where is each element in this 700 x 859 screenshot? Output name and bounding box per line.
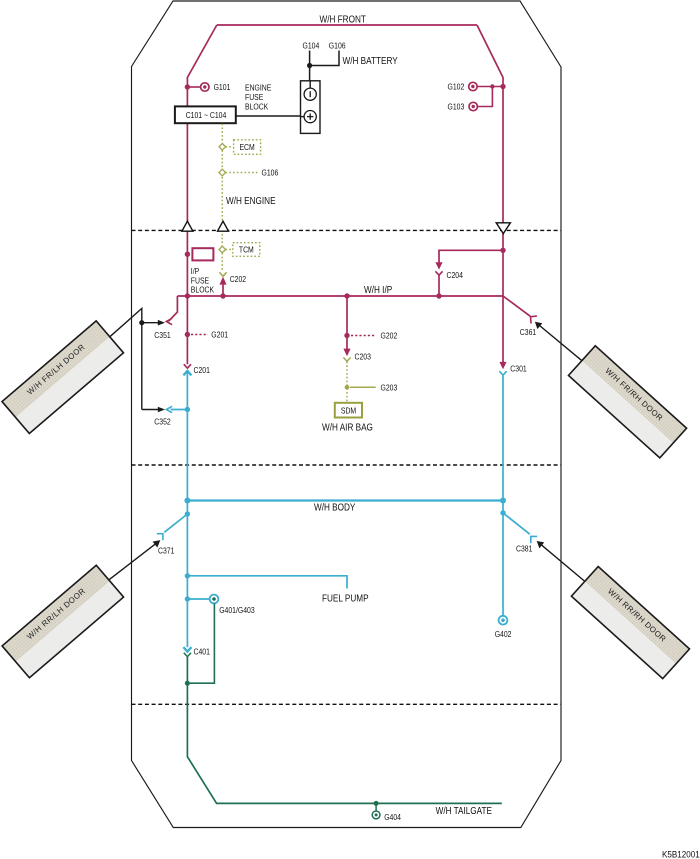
ground G101 <box>185 84 190 89</box>
svg-text:G106: G106 <box>329 41 346 51</box>
svg-text:SDM: SDM <box>341 406 356 416</box>
left cyan trunk <box>186 372 188 648</box>
svg-text:W/H TAILGATE: W/H TAILGATE <box>436 805 492 816</box>
W/H BODY main line <box>187 499 503 501</box>
svg-text:G201: G201 <box>211 330 228 340</box>
svg-text:C352: C352 <box>154 417 170 427</box>
svg-text:G404: G404 <box>384 812 401 822</box>
bulkhead triangle engine harness <box>218 221 229 231</box>
svg-text:BLOCK: BLOCK <box>245 102 269 112</box>
svg-text:C203: C203 <box>355 352 371 362</box>
connector C371 cyan pigtail <box>185 511 190 516</box>
W/H AIR BAG olive dotted drop <box>346 362 348 403</box>
svg-text:W/H ENGINE: W/H ENGINE <box>226 195 276 206</box>
W/H FR/RH DOOR harness bar <box>568 346 686 458</box>
leader arrow from RR/RH door bar to C381 <box>541 544 585 581</box>
arrow to C352 <box>142 409 159 411</box>
battery feed wire G106/W-H BATTERY <box>310 51 339 66</box>
dashed separator 2 <box>132 464 562 466</box>
TCM box <box>233 243 260 257</box>
connector block C101 ~ C104 <box>175 106 236 123</box>
W/H RR/LH DOOR harness bar <box>2 565 123 678</box>
svg-text:ENGINE: ENGINE <box>245 83 271 93</box>
svg-text:ECM: ECM <box>239 142 254 152</box>
dotted tap to G106 ground <box>226 172 258 174</box>
svg-text:G106: G106 <box>262 168 279 178</box>
svg-text:W/H I/P: W/H I/P <box>364 284 392 295</box>
diamond connector ECM tap <box>219 144 226 151</box>
svg-text:FUSE: FUSE <box>245 92 263 102</box>
svg-text:G402: G402 <box>495 629 512 639</box>
svg-text:C201: C201 <box>194 365 210 375</box>
junction on FR/LH door leader <box>139 320 144 325</box>
dotted tap to ECM <box>226 146 234 148</box>
dotted tap to TCM <box>226 249 233 251</box>
leader line from FR/LH door bar <box>109 308 142 409</box>
svg-text:W/H BODY: W/H BODY <box>314 502 355 513</box>
svg-text:BLOCK: BLOCK <box>191 285 215 295</box>
dashed separator 3 <box>132 703 562 705</box>
connector C201 <box>184 364 191 368</box>
svg-text:G104: G104 <box>303 41 320 51</box>
svg-text:C361: C361 <box>520 327 536 337</box>
I/P fuse block <box>185 252 190 257</box>
ground G401/G403 <box>185 596 190 601</box>
ground tap G203 <box>345 385 350 390</box>
battery feed wire G104 <box>309 51 311 81</box>
right cyan trunk <box>502 376 504 616</box>
ground G404 <box>374 801 379 806</box>
svg-text:G102: G102 <box>448 82 465 92</box>
W/H RR/RH DOOR harness bar <box>571 567 689 679</box>
ground G102 <box>500 84 505 89</box>
svg-text:TCM: TCM <box>239 245 254 255</box>
ground tap G201 <box>185 332 190 337</box>
svg-text:C301: C301 <box>510 364 526 374</box>
svg-text:G101: G101 <box>214 82 231 92</box>
svg-text:W/H AIR BAG: W/H AIR BAG <box>322 422 373 433</box>
svg-text:FUEL PUMP: FUEL PUMP <box>322 593 369 604</box>
svg-text:W/H FRONT: W/H FRONT <box>320 14 367 25</box>
front-right crimson trunk <box>477 25 503 363</box>
bulkhead triangle left <box>182 221 193 231</box>
svg-text:G202: G202 <box>381 331 398 341</box>
svg-text:C401: C401 <box>194 647 210 657</box>
ground G103 <box>478 87 493 107</box>
arrow to C351 <box>142 322 159 324</box>
wire C101 box to engine fuse block <box>236 115 301 117</box>
svg-text:C351: C351 <box>154 330 170 340</box>
svg-text:G103: G103 <box>448 102 465 112</box>
leader arrow from RR/LH door bar to C371 <box>109 543 157 580</box>
svg-text:C381: C381 <box>516 544 532 554</box>
svg-text:C101 ~ C104: C101 ~ C104 <box>186 110 227 120</box>
leader arrow from FR/RH door bar to C361 <box>540 326 582 361</box>
connector C401 <box>183 647 191 652</box>
connector C203 <box>346 296 348 350</box>
svg-text:W/H BATTERY: W/H BATTERY <box>343 55 398 66</box>
svg-text:C204: C204 <box>447 270 464 280</box>
green return from G401/G403 ring <box>190 603 214 683</box>
connector C381 cyan pigtail <box>500 510 505 515</box>
engine fuse block (battery symbol) <box>301 81 321 134</box>
connector C361 crimson pigtail <box>503 296 530 316</box>
junction dots on W/H I/P <box>185 293 190 298</box>
W/H FRONT wire <box>217 24 477 26</box>
diamond connector G106 tap <box>219 169 226 176</box>
fuel pump branch <box>185 573 190 578</box>
ground tap G202 <box>344 333 349 338</box>
W/H ENGINE olive dotted trunk <box>221 124 223 272</box>
W/H TAILGATE green trunk <box>187 657 501 803</box>
connector C204 <box>439 250 503 262</box>
svg-text:G401/G403: G401/G403 <box>219 605 254 615</box>
connector C351 crimson pigtail <box>169 296 178 321</box>
junction battery feed <box>307 63 312 68</box>
SDM box <box>335 403 362 418</box>
connector C301 <box>499 362 506 369</box>
ground G402 <box>499 616 508 625</box>
bulkhead triangle right (down) <box>496 223 510 234</box>
bulkhead dashed separator 1 <box>132 229 562 231</box>
W/H I/P main line <box>177 295 503 297</box>
connector C352 cyan pigtail <box>166 406 172 412</box>
diamond connector TCM tap <box>219 246 226 253</box>
front-left crimson trunk <box>187 25 216 364</box>
connector C202 <box>219 272 226 276</box>
ECM box <box>234 140 261 155</box>
vehicle body outline <box>132 1 562 828</box>
svg-text:K5B12001: K5B12001 <box>662 849 700 859</box>
svg-text:G203: G203 <box>381 383 398 393</box>
svg-text:C202: C202 <box>230 274 246 284</box>
W/H FR/LH DOOR harness bar <box>2 321 123 434</box>
svg-text:C371: C371 <box>158 546 174 556</box>
